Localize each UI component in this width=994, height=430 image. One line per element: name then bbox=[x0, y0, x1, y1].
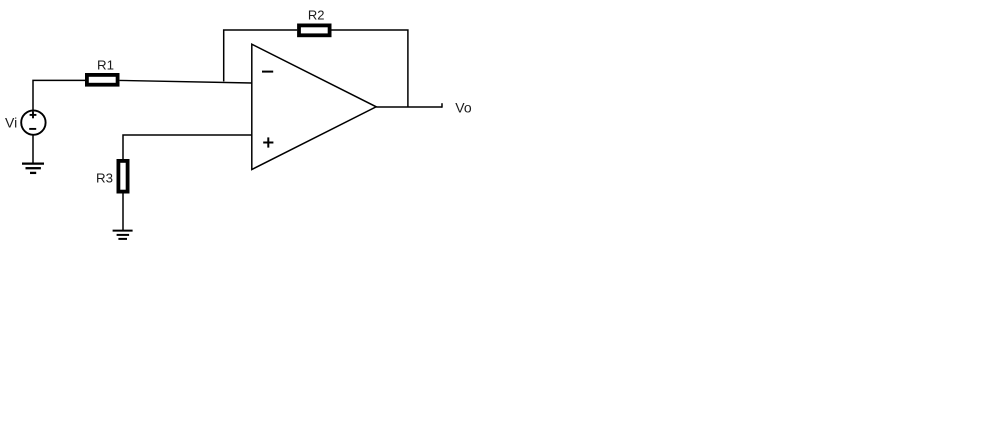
feedback wire: node to R2 bbox=[224, 30, 298, 81]
wire R1 to inverting input bbox=[120, 80, 252, 83]
svg-text:Vo: Vo bbox=[455, 99, 472, 115]
wire Vi bottom to ground bbox=[32, 135, 34, 164]
wire R3 to ground bbox=[122, 193, 124, 230]
ground below R3 bbox=[113, 231, 133, 239]
wire Vi top to R1 bbox=[33, 80, 85, 110]
svg-text:R1: R1 bbox=[97, 58, 114, 73]
resistor R1 bbox=[87, 75, 118, 85]
voltage source Vi bbox=[21, 110, 45, 134]
resistor R2 bbox=[299, 25, 330, 35]
ground below Vi bbox=[22, 164, 44, 173]
svg-text:R3: R3 bbox=[96, 170, 113, 185]
svg-text:Vi: Vi bbox=[5, 115, 17, 131]
op-amp U1 bbox=[252, 44, 376, 169]
feedback wire: R2 to output node bbox=[331, 30, 408, 107]
inverting input marker - bbox=[262, 71, 273, 73]
resistor R3 bbox=[118, 161, 127, 192]
output terminal tick bbox=[441, 103, 443, 108]
output wire bbox=[376, 106, 442, 108]
non-inverting input marker + bbox=[263, 137, 273, 147]
wire R3 to non-inverting input bbox=[123, 135, 252, 159]
svg-text:R2: R2 bbox=[308, 7, 325, 22]
